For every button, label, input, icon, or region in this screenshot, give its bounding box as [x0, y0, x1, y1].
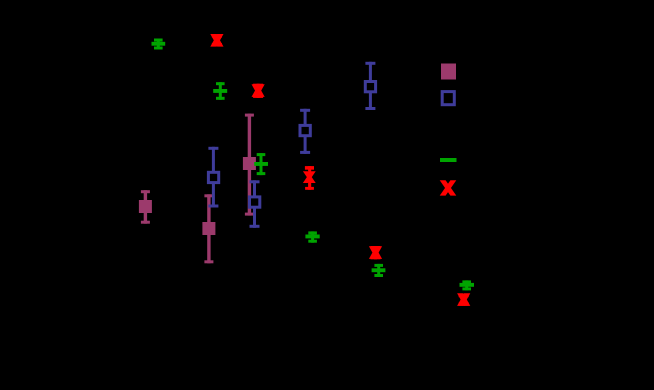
pink series: filled squares with error bars [139, 64, 456, 264]
green point G2 errorbar [213, 82, 227, 100]
blue point B1 errorbar [207, 147, 220, 208]
red point R5 errorbar [457, 293, 470, 306]
blue point B3 errorbar [299, 109, 312, 154]
green point G3 errorbar [254, 153, 268, 175]
legend red X [440, 180, 457, 195]
pink point P2 errorbar [202, 194, 215, 263]
pink point P3 errorbar [243, 114, 256, 216]
legend blue open square [441, 90, 456, 106]
green point G1 errorbar [152, 39, 166, 50]
legend pink square [441, 64, 456, 80]
green point G5 errorbar [372, 264, 386, 277]
blue point B2 errorbar [248, 180, 261, 228]
red point R3 errorbar [303, 166, 316, 190]
blue point B4 errorbar [364, 62, 377, 110]
red point R1 errorbar [210, 34, 223, 47]
blue series: open squares with error bars [207, 62, 456, 228]
green point G6 errorbar [460, 280, 475, 290]
red series: bold X markers with error bars [210, 34, 470, 306]
red point R2 errorbar [252, 84, 265, 98]
pink point P1 errorbar [139, 190, 152, 224]
red point R4 errorbar [369, 246, 382, 259]
green series: dash markers with error bars [152, 39, 475, 291]
green point G4 errorbar [305, 231, 319, 242]
legend green dash [440, 158, 457, 162]
